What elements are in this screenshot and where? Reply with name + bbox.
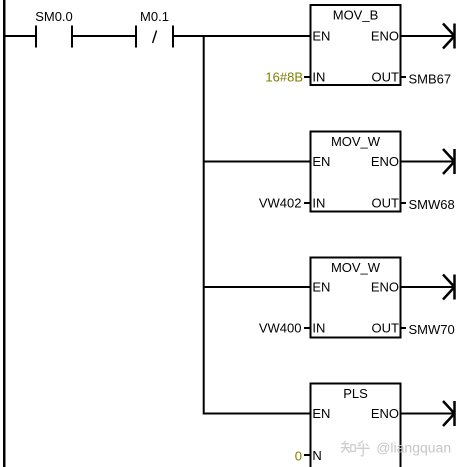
svg-text:IN: IN [312, 70, 325, 85]
stub OUT to SMB67 [401, 76, 407, 78]
svg-text:ENO: ENO [371, 28, 399, 43]
stub OUT to SMW70 [401, 327, 407, 329]
left power rail [3, 0, 6, 467]
arrow output MOV_W (3) [401, 275, 455, 300]
watermark zhihu logo glyphs [341, 441, 369, 456]
svg-text:EN: EN [312, 279, 330, 294]
svg-text:OUT: OUT [372, 321, 400, 336]
svg-text:PLS: PLS [343, 386, 368, 401]
svg-text:M0.1: M0.1 [140, 9, 169, 24]
wire contact M0.1 to block MOV_B EN [174, 35, 310, 37]
svg-text:MOV_W: MOV_W [331, 134, 381, 149]
block MOV_B box [311, 5, 401, 85]
arrow output MOV_B [401, 24, 455, 49]
wire contact SM0.0 to contact M0.1 [73, 35, 136, 37]
block MOV_W (3) box [311, 258, 401, 338]
svg-text:VW402: VW402 [259, 196, 302, 211]
block PLS box [311, 384, 401, 467]
wire rail to contact SM0.0 [4, 35, 36, 37]
arrow output PLS [401, 401, 455, 426]
stub 0 to N [304, 454, 310, 456]
svg-text:MOV_B: MOV_B [333, 8, 379, 23]
svg-text:0: 0 [295, 449, 302, 464]
svg-text:VW400: VW400 [259, 321, 302, 336]
arrow output MOV_W (2) [401, 149, 455, 174]
svg-text:16#8B: 16#8B [265, 70, 303, 85]
svg-text:ENO: ENO [371, 154, 399, 169]
wire branch to block MOV_W (3) EN [203, 286, 310, 288]
svg-text:@liangquan: @liangquan [376, 440, 451, 456]
svg-text:EN: EN [312, 406, 330, 421]
svg-text:SMW68: SMW68 [409, 197, 455, 212]
svg-text:ENO: ENO [371, 406, 399, 421]
svg-text:ENO: ENO [371, 279, 399, 294]
svg-text:SMW70: SMW70 [409, 322, 455, 337]
wire branch to block PLS EN [203, 413, 310, 415]
stub OUT to SMW68 [401, 202, 407, 204]
svg-text:SM0.0: SM0.0 [35, 9, 73, 24]
svg-text:IN: IN [312, 196, 325, 211]
block MOV_W (2) box [311, 132, 401, 212]
contact M0.1 (normally closed) [136, 26, 173, 48]
contact SM0.0 (normally open) [36, 26, 72, 48]
branch vertical wire [203, 35, 205, 415]
stub VW402 to IN [304, 202, 310, 204]
svg-text:SMB67: SMB67 [409, 71, 452, 86]
svg-text:IN: IN [312, 321, 325, 336]
svg-text:OUT: OUT [372, 70, 400, 85]
stub 16#8B to IN [304, 76, 310, 78]
wire branch to block MOV_W (2) EN [203, 161, 310, 163]
svg-text:EN: EN [312, 28, 330, 43]
svg-text:OUT: OUT [372, 196, 400, 211]
svg-text:EN: EN [312, 154, 330, 169]
svg-text:N: N [312, 448, 321, 463]
svg-text:MOV_W: MOV_W [331, 260, 381, 275]
stub VW400 to IN [304, 327, 310, 329]
